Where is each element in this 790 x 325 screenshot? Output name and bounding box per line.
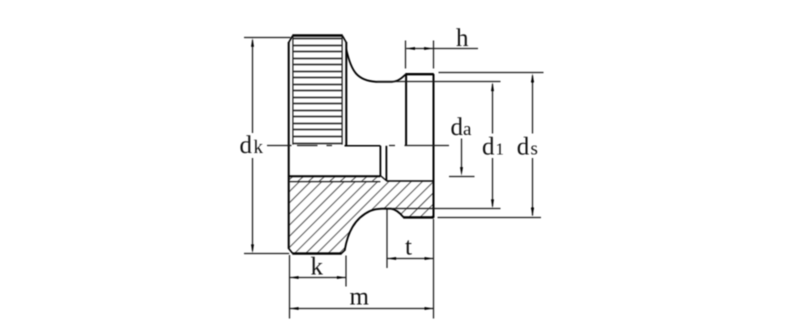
centerline (axis) bbox=[267, 145, 449, 147]
svg-text:k: k bbox=[311, 254, 324, 281]
svg-text:t: t bbox=[405, 234, 412, 261]
boss right face edge bbox=[433, 74, 435, 218]
m right extension line bbox=[433, 219, 435, 319]
boss top edge bbox=[405, 73, 434, 75]
k dimension line bbox=[290, 277, 347, 279]
knurl face inner edges bbox=[293, 37, 342, 145]
section hatch area (lower half: head, waist, boss) bbox=[289, 182, 434, 254]
k arrows bbox=[290, 276, 299, 279]
m arrows bbox=[290, 307, 299, 310]
da extension line (thread minor extended) bbox=[449, 176, 475, 178]
thread major line bbox=[289, 181, 380, 183]
h extension lines bbox=[405, 41, 407, 69]
t dimension bbox=[387, 210, 434, 269]
knurled head: bottom chamfers bbox=[289, 249, 346, 254]
d1 extension line top (waist face extended) bbox=[377, 81, 501, 83]
knurled head: top edge bbox=[292, 34, 342, 37]
t dimension line bbox=[387, 258, 434, 260]
ds dimension bbox=[532, 76, 534, 216]
knurled head: right silhouette edge bbox=[345, 42, 347, 145]
dk arrows bbox=[251, 38, 254, 47]
dk bottom extension line bbox=[244, 253, 289, 255]
d1 arrows bbox=[491, 82, 494, 91]
svg-text:m: m bbox=[350, 284, 370, 311]
h dimension bbox=[406, 41, 479, 69]
counterbore wall line bbox=[386, 180, 433, 182]
boss bottom edge bbox=[403, 216, 434, 218]
bore minor (thread) line bbox=[289, 175, 381, 177]
ds extension line bottom bbox=[438, 217, 542, 219]
k dimension bbox=[290, 255, 347, 319]
counterbore step v2 bbox=[385, 146, 387, 181]
t arrows bbox=[387, 257, 396, 260]
da dimension bbox=[449, 139, 475, 177]
svg-text:1: 1 bbox=[496, 140, 505, 159]
m dimension line bbox=[290, 308, 434, 310]
svg-text:d: d bbox=[482, 134, 495, 161]
bore top line at axis bbox=[345, 145, 381, 147]
svg-text:s: s bbox=[531, 139, 538, 160]
ds arrows bbox=[531, 73, 534, 82]
dk top extension line bbox=[244, 37, 290, 39]
da dimension line bbox=[461, 139, 463, 172]
k right extension line bbox=[345, 256, 347, 287]
knurled head: top chamfers bbox=[289, 36, 347, 43]
svg-text:h: h bbox=[456, 25, 469, 52]
bottom ogee curve (waist profile, lower) bbox=[345, 209, 405, 250]
top ogee curve (waist profile, upper) bbox=[346, 49, 405, 82]
da arrow bbox=[460, 167, 463, 176]
thread end step v1 bbox=[379, 146, 381, 176]
k/m left extension line bbox=[289, 255, 291, 319]
ds junction dots bbox=[531, 80, 534, 83]
svg-text:d: d bbox=[451, 114, 464, 141]
svg-text:a: a bbox=[463, 119, 472, 140]
thread band hatch bbox=[289, 176, 380, 181]
knurled head: left face edge bbox=[288, 42, 290, 249]
step chamfer bbox=[380, 176, 386, 181]
svg-text:d: d bbox=[240, 132, 253, 159]
d1 extension line bottom bbox=[391, 208, 501, 210]
ds extension line top bbox=[439, 72, 544, 74]
h dimension line bbox=[406, 48, 478, 50]
boss left edge bbox=[405, 74, 407, 145]
knurled head: bottom edge bbox=[292, 252, 341, 254]
svg-text:k: k bbox=[254, 137, 264, 158]
svg-text:d: d bbox=[517, 134, 530, 161]
h arrows bbox=[406, 47, 415, 50]
dk dimension bbox=[244, 38, 290, 254]
d1 dimension bbox=[492, 84, 494, 207]
dk dimension line bbox=[252, 40, 254, 133]
m dimension bbox=[290, 219, 434, 319]
t left extension line bbox=[386, 210, 388, 269]
knurl lines bbox=[293, 39, 342, 144]
